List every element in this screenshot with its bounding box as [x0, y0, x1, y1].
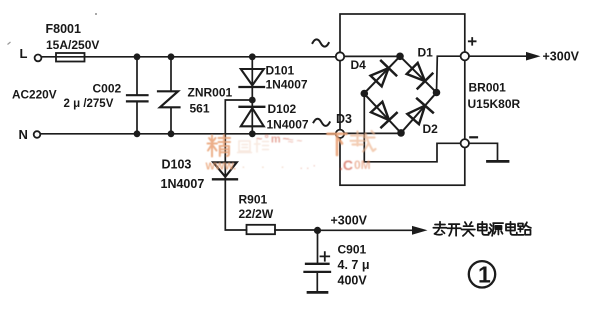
diode D3 [371, 102, 389, 120]
svg-text:WWW.: WWW. [206, 162, 237, 173]
node L-C002 [134, 53, 141, 60]
svg-text:≈~: ≈~ [288, 136, 305, 147]
wire diamond left corner to minus terminal [364, 94, 460, 162]
capacitor C901 [306, 263, 329, 265]
node L-D101 [249, 53, 256, 60]
svg-text:1N4007: 1N4007 [161, 177, 205, 191]
svg-text:1: 1 [478, 262, 491, 288]
fuse F8001 [56, 53, 85, 62]
svg-text:D2: D2 [423, 122, 439, 136]
watermark char zai (hand-drawn) [351, 131, 376, 152]
svg-text:4. 7 μ: 4. 7 μ [338, 258, 370, 272]
diode D1 [407, 63, 425, 81]
node diamond right [433, 89, 441, 97]
svg-text:C002: C002 [93, 81, 122, 95]
wire C002 branch [136, 57, 138, 134]
wire +300V top [469, 55, 526, 57]
node D101-D102 junction [249, 97, 256, 104]
speck top-left [8, 42, 11, 45]
wire N rail [41, 133, 337, 135]
wire D102 branch [251, 100, 253, 134]
svg-text:R901: R901 [239, 193, 268, 207]
svg-text:D3: D3 [336, 112, 352, 126]
terminal bridge minus [461, 139, 469, 147]
svg-text:1N4007: 1N4007 [266, 77, 308, 91]
svg-text:D102: D102 [268, 102, 297, 116]
wire box ~L to diamond top [344, 55, 400, 57]
terminal L [35, 55, 42, 62]
AC tilde bottom [314, 119, 330, 126]
varistor ZNR001 [158, 91, 180, 107]
svg-text:U15K80R: U15K80R [468, 97, 521, 111]
minus sign bridge [470, 136, 477, 138]
svg-text:+300V: +300V [543, 50, 580, 64]
wire L rail [42, 56, 337, 58]
node diamond left [361, 90, 369, 98]
bridge BR001 box [340, 14, 465, 185]
svg-text:C901: C901 [338, 242, 367, 256]
arrowhead +300V lower [412, 226, 428, 235]
svg-text:15A/250V: 15A/250V [46, 38, 99, 52]
node N-C002 [134, 130, 141, 137]
terminal bridge plus [461, 52, 469, 60]
wire R901 to node [275, 229, 318, 231]
svg-text:+300V: +300V [331, 214, 368, 228]
diode D4 [371, 68, 389, 86]
ground [488, 160, 509, 163]
svg-text:D4: D4 [351, 58, 367, 72]
wire ZNR branch [170, 57, 172, 134]
node N-ZNR [168, 130, 175, 137]
diode D102 [240, 106, 265, 108]
diode D103 [213, 162, 237, 177]
arrowhead +300V top [526, 52, 541, 61]
wire C901 branch [316, 231, 318, 292]
wire +300V arrow lower [318, 229, 413, 231]
wire diamond edges [364, 56, 437, 133]
terminal N [34, 131, 41, 138]
svg-text:400V: 400V [338, 273, 368, 287]
svg-text:N: N [19, 127, 28, 142]
svg-text:F8001: F8001 [46, 22, 81, 36]
C901 plus sign [321, 252, 330, 261]
svg-text:..·: ..· [300, 161, 320, 171]
diode D101 [241, 69, 264, 85]
AC tilde top [313, 39, 329, 46]
node diamond bottom [397, 129, 405, 137]
terminal bridge ~ N [336, 130, 344, 138]
wire diamond right corner to plus terminal [437, 56, 461, 92]
svg-text:1N4007: 1N4007 [267, 118, 309, 132]
svg-text:D103: D103 [162, 158, 192, 172]
node diamond top [396, 53, 404, 61]
watermark faint middle (hand-drawn) [238, 140, 269, 153]
svg-text:BR001: BR001 [469, 81, 507, 95]
svg-text:561: 561 [190, 102, 210, 116]
svg-text:ZNR001: ZNR001 [188, 86, 233, 100]
svg-text:2 μ /275V: 2 μ /275V [64, 98, 114, 110]
svg-text:AC220V: AC220V [12, 88, 57, 102]
wire box ~N to diamond bottom [344, 132, 401, 134]
wire junction to D103 [225, 100, 252, 179]
terminal bridge ~ L [336, 52, 344, 60]
svg-text:D101: D101 [266, 64, 295, 78]
node N-D102 [249, 130, 256, 137]
svg-text:D1: D1 [418, 45, 434, 59]
capacitor C002 [127, 95, 148, 101]
watermark char jing (hand-drawn) [208, 135, 231, 157]
svg-text:L: L [20, 46, 28, 61]
wire D101 branch [251, 57, 253, 100]
svg-text:22/2W: 22/2W [239, 207, 274, 221]
resistor R901 [247, 225, 276, 234]
watermark char xia (hand-drawn) [328, 134, 347, 155]
svg-text:. . .: . . . [242, 160, 291, 171]
svg-text:.C: .C [339, 157, 353, 173]
circled 1 [469, 261, 495, 287]
node +300V tap [314, 227, 321, 234]
label to switching power supply (hand-drawn CJK) [433, 222, 531, 236]
plus sign bridge [469, 38, 476, 45]
speck above fuse [95, 13, 97, 15]
diode D2 [407, 106, 425, 125]
wire D103 to R901 [225, 179, 246, 230]
svg-text:0M: 0M [354, 158, 371, 172]
svg-text:~°m~: ~°m~ [256, 134, 291, 146]
node L-ZNR [168, 53, 175, 60]
wire minus to ground [469, 143, 498, 160]
